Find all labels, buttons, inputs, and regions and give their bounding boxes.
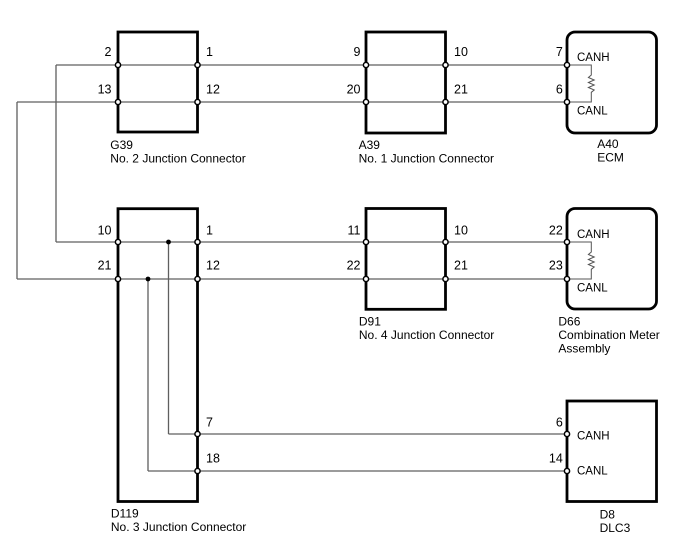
wire CANL branch G39 pin13 horizontal (17, 101, 118, 103)
pin D119-10 (115, 239, 120, 244)
pin D66-23 (564, 276, 569, 281)
wire CANH branch vertical left (55, 65, 57, 242)
svg-text:D8: D8 (600, 508, 616, 522)
pin A40-6 (564, 99, 569, 104)
svg-text:DLC3: DLC3 (600, 521, 631, 535)
combination meter D66 box (567, 209, 657, 310)
wire CANH D119 pin7 to D8 pin6 (198, 433, 568, 435)
wire CANL inside A39 (366, 101, 446, 103)
pin A39-10 (443, 62, 448, 67)
wire CANH inside D91 (366, 241, 446, 243)
svg-text:22: 22 (549, 224, 563, 238)
pin G39-13 (115, 99, 120, 104)
svg-text:1: 1 (206, 224, 213, 238)
wire CANL D119 pin12 to D91 pin22 (198, 278, 367, 280)
wire CANL D119 pin18 to D8 pin14 (198, 470, 568, 472)
pin D119-21 (115, 276, 120, 281)
label G39 (110, 138, 245, 166)
pin D119-7 (195, 431, 200, 436)
svg-text:10: 10 (454, 45, 468, 59)
wire CANL inside G39 (118, 101, 198, 103)
svg-text:Combination Meter: Combination Meter (558, 328, 659, 342)
svg-text:D119: D119 (111, 506, 139, 520)
junction connector A39 box (366, 32, 446, 133)
wire CANH G39 pin1 to A39 pin9 (198, 64, 367, 66)
DLC3 D8 box (567, 401, 657, 502)
resistor terminating inside A40 (567, 65, 594, 102)
svg-text:2: 2 (105, 45, 112, 59)
svg-text:CANH: CANH (577, 431, 610, 443)
wire CANL branch to D119 pin21 (17, 278, 118, 280)
svg-text:12: 12 (206, 83, 220, 97)
svg-text:6: 6 (556, 83, 563, 97)
svg-text:6: 6 (556, 416, 563, 430)
pin D91-21 (443, 276, 448, 281)
svg-text:23: 23 (549, 259, 563, 273)
svg-text:Assembly: Assembly (558, 341, 610, 355)
junction connector D119 box (118, 209, 198, 502)
label D91 (359, 315, 494, 343)
svg-text:CANL: CANL (577, 465, 608, 477)
pin A39-20 (363, 99, 368, 104)
svg-text:CANL: CANL (577, 283, 608, 295)
wire CANL branch vertical left (16, 102, 18, 279)
svg-text:1: 1 (206, 45, 213, 59)
pin A40-7 (564, 62, 569, 67)
pin G39-2 (115, 62, 120, 67)
svg-text:7: 7 (556, 45, 563, 59)
pin D66-22 (564, 239, 569, 244)
wire CANL inside D119 (118, 278, 198, 280)
label D66 Combination Meter Assembly (558, 314, 659, 355)
svg-text:No. 2 Junction Connector: No. 2 Junction Connector (110, 152, 245, 166)
pin A39-9 (363, 62, 368, 67)
pin D91-10 (443, 239, 448, 244)
svg-text:CANH: CANH (577, 229, 610, 241)
wire CANH branch to D119 pin10 (56, 241, 118, 243)
wire CANL drop inside D119 vertical (147, 279, 149, 471)
wire CANH inside A39 (366, 64, 446, 66)
svg-text:11: 11 (348, 224, 361, 238)
svg-text:G39: G39 (110, 138, 133, 152)
label A39 (359, 138, 494, 166)
wire CANH branch G39 pin2 horizontal (56, 64, 118, 66)
label A40 ECM (597, 137, 624, 165)
svg-text:9: 9 (354, 45, 361, 59)
pin D119-1 (195, 239, 200, 244)
wire CANL inside D91 (366, 278, 446, 280)
svg-text:No. 1 Junction Connector: No. 1 Junction Connector (359, 152, 494, 166)
svg-text:12: 12 (206, 259, 220, 273)
wire CANH drop inside D119 vertical (168, 242, 170, 434)
junction connector G39 box (118, 32, 198, 132)
svg-text:21: 21 (454, 259, 468, 273)
pin G39-1 (195, 62, 200, 67)
svg-text:14: 14 (549, 451, 563, 465)
wire CANH A39 pin10 to A40 pin7 (446, 64, 568, 66)
pin D91-11 (363, 239, 368, 244)
svg-text:A39: A39 (359, 138, 381, 152)
wire CANH D119 pin1 to D91 pin11 (198, 241, 367, 243)
svg-text:No. 3 Junction Connector: No. 3 Junction Connector (111, 520, 246, 534)
svg-text:21: 21 (454, 83, 468, 97)
resistor terminating inside D66 (567, 242, 594, 279)
svg-text:10: 10 (98, 224, 112, 238)
ECM A40 box (567, 32, 657, 133)
wire CANL A39 pin21 to A40 pin6 (446, 101, 568, 103)
svg-text:13: 13 (98, 83, 112, 97)
svg-text:22: 22 (347, 259, 361, 273)
pin D8-6 (564, 431, 569, 436)
svg-text:18: 18 (206, 451, 220, 465)
pin D8-14 (564, 468, 569, 473)
junction node on CANH inside D119 (166, 240, 171, 245)
junction connector D91 box (366, 209, 446, 310)
svg-text:A40: A40 (597, 137, 619, 151)
svg-text:20: 20 (347, 83, 361, 97)
svg-text:7: 7 (206, 416, 213, 430)
svg-text:D91: D91 (359, 315, 381, 329)
wire CANL drop to D119 pin18 (148, 470, 198, 472)
wire CANH D91 pin10 to D66 pin22 (446, 241, 568, 243)
svg-text:CANL: CANL (577, 106, 608, 118)
svg-text:D66: D66 (558, 314, 580, 328)
pin A39-21 (443, 99, 448, 104)
wire CANH inside D119 (118, 241, 198, 243)
svg-text:21: 21 (98, 259, 112, 273)
wire CANL G39 pin12 to A39 pin20 (198, 101, 367, 103)
pin D91-22 (363, 276, 368, 281)
wire CANH drop to D119 pin7 (169, 433, 198, 435)
wire CANH inside G39 (118, 64, 198, 66)
pin D119-18 (195, 468, 200, 473)
svg-text:No. 4 Junction Connector: No. 4 Junction Connector (359, 328, 494, 342)
svg-text:ECM: ECM (597, 151, 624, 165)
pin D119-12 (195, 276, 200, 281)
svg-text:10: 10 (454, 224, 468, 238)
label D119 (111, 506, 246, 534)
label D8 DLC3 (600, 508, 631, 536)
pin G39-12 (195, 99, 200, 104)
svg-text:CANH: CANH (577, 52, 610, 64)
wire CANL D91 pin21 to D66 pin23 (446, 278, 568, 280)
junction node on CANL inside D119 (146, 277, 151, 282)
